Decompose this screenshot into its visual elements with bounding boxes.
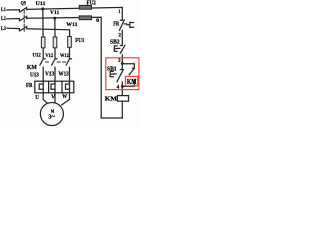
svg-text:W11: W11 <box>66 22 77 28</box>
svg-text:SB1: SB1 <box>107 66 117 72</box>
svg-text:V11: V11 <box>50 10 59 16</box>
svg-text:V13: V13 <box>45 72 54 78</box>
svg-text:3~: 3~ <box>48 113 55 120</box>
svg-text:3: 3 <box>118 58 121 64</box>
svg-text:U12: U12 <box>33 53 41 59</box>
svg-text:KM: KM <box>105 95 117 102</box>
svg-text:U: U <box>35 94 39 101</box>
svg-text:2: 2 <box>118 33 121 39</box>
svg-text:W: W <box>62 93 67 100</box>
svg-text:FU2: FU2 <box>87 1 96 7</box>
svg-text:V: V <box>51 94 55 101</box>
svg-text:KM: KM <box>27 64 37 71</box>
svg-text:KM: KM <box>127 78 137 86</box>
svg-text:L2: L2 <box>1 16 6 22</box>
svg-text:W13: W13 <box>59 72 69 78</box>
svg-text:QS: QS <box>21 1 26 7</box>
svg-text:FU1: FU1 <box>75 38 84 44</box>
svg-text:W12: W12 <box>60 53 69 59</box>
svg-text:U11: U11 <box>36 1 46 7</box>
svg-text:4: 4 <box>117 84 120 90</box>
svg-text:FR: FR <box>26 83 33 89</box>
svg-text:L3: L3 <box>1 26 6 32</box>
svg-text:1: 1 <box>118 9 120 15</box>
svg-text:0: 0 <box>96 18 99 24</box>
svg-text:FR: FR <box>113 21 119 28</box>
svg-text:V12: V12 <box>45 53 53 59</box>
svg-text:SB2: SB2 <box>110 40 120 46</box>
svg-text:L1: L1 <box>1 7 6 13</box>
svg-text:U13: U13 <box>30 72 39 78</box>
